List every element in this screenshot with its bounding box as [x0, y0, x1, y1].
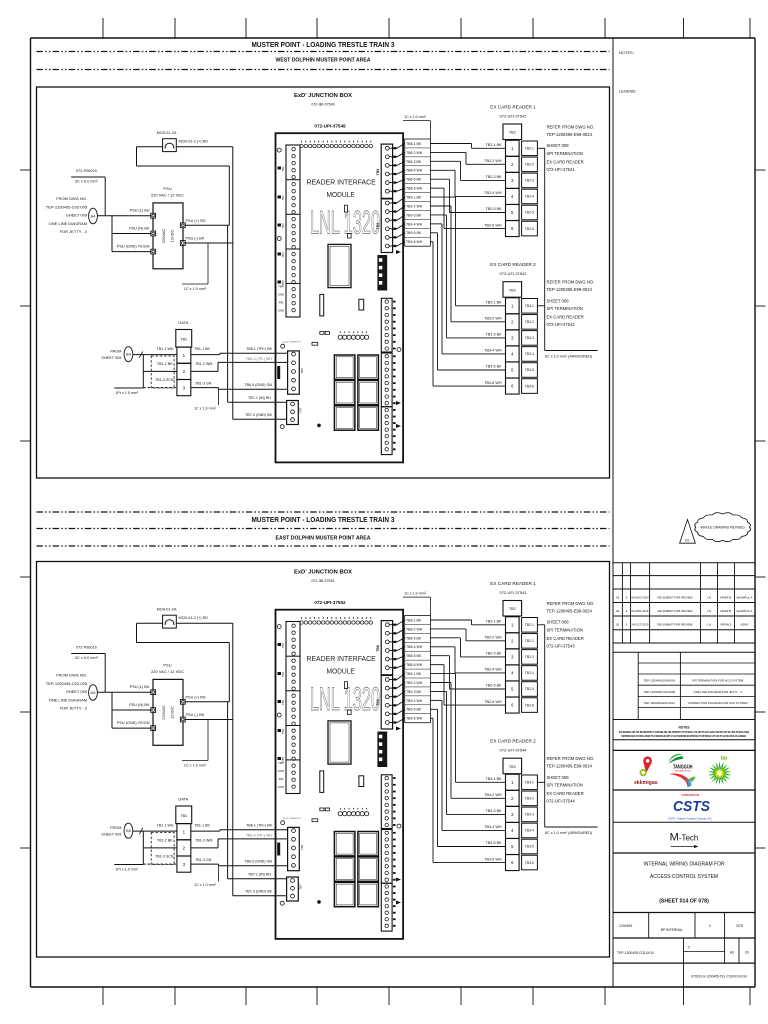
svg-text:TB8-2 WH: TB8-2 WH: [406, 151, 423, 155]
wire 0V distribution: [232, 147, 234, 420]
label box TB3-4 right: [522, 823, 538, 838]
TB1 terminal 2: [177, 363, 191, 379]
right terminal strip lower C: [381, 775, 392, 829]
wire TB1-3 screen (dashed): [143, 863, 177, 865]
svg-text:REFER FROM DWG NO.: REFER FROM DWG NO.: [547, 124, 595, 129]
label box TB3-5 right: [522, 839, 538, 854]
dash-dot separator line: [37, 545, 610, 547]
wire tick: [139, 828, 142, 834]
wire stub TB9-3 BK: [390, 219, 398, 221]
svg-text:LN: LN: [707, 609, 711, 613]
wire to TB2-4: [430, 646, 455, 648]
wire bus: [111, 216, 113, 252]
svg-text:072-P06016: 072-P06016: [76, 646, 97, 650]
TB2 terminal 3: [506, 649, 520, 665]
svg-text:TB1-1 WH: TB1-1 WH: [157, 347, 174, 351]
svg-text:TB9-2 WH: TB9-2 WH: [406, 681, 423, 685]
wire to TB3-4: [430, 699, 442, 701]
svg-text:RE-SUBMIT FOR REVIEW: RE-SUBMIT FOR REVIEW: [658, 596, 693, 600]
svg-text:LN: LN: [707, 596, 711, 600]
svg-text:TB3-4: TB3-4: [525, 829, 534, 833]
svg-text:MCB-01-2A: MCB-01-2A: [157, 608, 177, 612]
svg-text:REFER FROM DWG NO.: REFER FROM DWG NO.: [547, 601, 595, 606]
svg-text:TB3-5 BK: TB3-5 BK: [486, 841, 503, 845]
mid band dash-dot line: [37, 511, 610, 513]
svg-text:TB2-1: TB2-1: [525, 147, 534, 151]
svg-text:SHEET 009: SHEET 009: [66, 213, 88, 218]
left strip connector stubs: [278, 643, 282, 646]
DIP switch block: [377, 732, 387, 768]
svg-text:1C x 1.0 mm²: 1C x 1.0 mm²: [404, 591, 426, 595]
svg-text:REFER FROM DWG NO.: REFER FROM DWG NO.: [547, 280, 595, 285]
svg-text:TEP-1200495-C02-005: TEP-1200495-C02-005: [46, 204, 88, 209]
svg-text:01: 01: [616, 623, 620, 627]
DIP switch block: [377, 255, 387, 291]
PSU output terminal: [180, 241, 185, 246]
svg-text:DATA: DATA: [178, 797, 188, 802]
svg-text:B5: B5: [126, 828, 131, 833]
wire to TB2-6: [430, 664, 444, 666]
wire +12V to TB7-1: [228, 401, 287, 403]
svg-text:M-Tech: M-Tech: [670, 832, 699, 844]
wire to TB2-2: [430, 628, 466, 630]
TB2 terminal 5: [506, 204, 520, 220]
TB1 terminal 1: [177, 347, 191, 363]
cable leader TB3: [537, 305, 544, 307]
PSU input terminal: [151, 690, 156, 695]
svg-text:TB7: TB7: [299, 407, 303, 413]
wire stub TB8-4 WH: [390, 650, 398, 652]
TB3 terminal 2: [506, 314, 520, 330]
wire TB1-1 to TB6-1: [191, 830, 220, 832]
svg-text:CSTS: CSTS: [673, 798, 710, 815]
wire stub TB8-2 WH: [390, 632, 398, 634]
svg-text:TEP-1200495-E99-0024: TEP-1200495-E99-0024: [644, 679, 676, 683]
svg-text:THIS DRAWING AND THE INFORMATI: THIS DRAWING AND THE INFORMATION IT CONT…: [619, 730, 750, 734]
wire to TB3-6: [430, 717, 433, 719]
svg-text:REPRODUCED OR DISCLOSED TO OTH: REPRODUCED OR DISCLOSED TO OTHERS EXCEPT…: [622, 734, 747, 738]
PSU input terminal: [151, 708, 156, 713]
svg-text:TB2-5 BK: TB2-5 BK: [486, 684, 503, 688]
svg-text:GND: GND: [278, 293, 284, 297]
svg-text:IRFAN.S: IRFAN.S: [721, 623, 732, 627]
svg-text:bp: bp: [721, 756, 728, 762]
board mounting holes: [277, 148, 281, 152]
svg-text:EX CARD READER: EX CARD READER: [547, 636, 584, 641]
svg-text:TB3-4 WH: TB3-4 WH: [484, 349, 502, 353]
svg-text:TB7-1 (IN) RD: TB7-1 (IN) RD: [248, 872, 271, 876]
lower strip wire stubs: [393, 777, 396, 779]
label box TB2-3 right: [522, 650, 538, 665]
wire stub TB9-2 WH: [390, 211, 398, 213]
svg-text:ONE LINE DIAGRAM: ONE LINE DIAGRAM: [49, 221, 87, 226]
cable size label 1C x 1.0 mm2 under PSU: [207, 720, 209, 761]
PSU output terminal: [180, 223, 185, 228]
svg-text:TB8-5 BK: TB8-5 BK: [406, 178, 422, 182]
label box TB3-6 right: [522, 855, 538, 870]
wire stub TB8-6 WH: [390, 190, 398, 192]
svg-text:TB2: TB2: [509, 607, 516, 611]
svg-text:GND: GND: [278, 309, 284, 313]
svg-text:TB3: TB3: [281, 699, 285, 705]
svg-text:TB2: TB2: [509, 131, 516, 135]
label box TB2-1 right: [522, 618, 538, 633]
svg-text:PSU (+) RD: PSU (+) RD: [186, 219, 206, 223]
revision table: [613, 562, 755, 564]
label box TB3-2 right: [522, 791, 538, 806]
TB3 terminal 3: [506, 806, 520, 822]
wire TB1-3 to TB6-5: [191, 863, 219, 865]
svg-text:TB3-2 WH: TB3-2 WH: [484, 317, 502, 321]
svg-text:TB1-2 BK: TB1-2 BK: [157, 839, 173, 843]
wire tick: [139, 351, 142, 357]
svg-text:TB1-3 GN: TB1-3 GN: [195, 858, 212, 862]
svg-text:TB2-3 BK: TB2-3 BK: [486, 175, 503, 179]
board LED row: [338, 335, 342, 339]
svg-text:02: 02: [616, 609, 620, 613]
relay K3: [334, 380, 355, 404]
svg-text:TB9-5 BK: TB9-5 BK: [406, 708, 422, 712]
svg-text:GND: GND: [278, 769, 284, 773]
TB2 terminal 2: [506, 156, 520, 172]
IC U1 large square: [328, 244, 351, 287]
wire to TB2-4: [430, 169, 455, 171]
title block fields row 1: [648, 913, 650, 939]
ruler ticks bottom edge: [102, 987, 104, 1005]
svg-text:TB1: TB1: [180, 338, 187, 342]
wire +12V drop: [228, 643, 230, 702]
svg-text:TB2-2: TB2-2: [525, 639, 534, 643]
svg-text:RFL: RFL: [279, 301, 285, 305]
cable size 1Pr x 1.5 mm2: [114, 864, 143, 866]
wire PSU N: [112, 709, 151, 711]
label box TB3-6 right: [522, 379, 538, 394]
svg-text:TB3-3: TB3-3: [525, 336, 534, 340]
svg-text:TANGGUH: TANGGUH: [673, 764, 693, 770]
terminal block TB6 entry: [288, 351, 300, 394]
wire data in: [133, 354, 177, 356]
TB3 terminal 6: [506, 378, 520, 394]
label box TB2-5 right: [522, 205, 538, 220]
svg-text:TB3-3: TB3-3: [525, 813, 534, 817]
svg-text:TB2-2 WH: TB2-2 WH: [484, 636, 502, 640]
svg-text:1C x 1.0 mm²: 1C x 1.0 mm²: [184, 764, 207, 768]
svg-text:072-UFI-37543: 072-UFI-37543: [500, 590, 528, 595]
svg-text:TB2-5 BK: TB2-5 BK: [486, 207, 503, 211]
right terminal strip TB9: [381, 199, 392, 253]
svg-text:MODULE: MODULE: [327, 667, 355, 676]
svg-text:TB2-6: TB2-6: [525, 703, 534, 707]
right terminal strip TB8: [381, 621, 392, 675]
svg-text:PSU (N) BK: PSU (N) BK: [129, 226, 150, 230]
svg-text:TB6-5 (GND) GN: TB6-5 (GND) GN: [244, 383, 272, 387]
wire TB1-3 screen (dashed): [143, 387, 177, 389]
board test point dot: [318, 900, 321, 903]
svg-text:1200495: 1200495: [619, 924, 632, 928]
svg-text:220 VAC / 12 VDC: 220 VAC / 12 VDC: [151, 193, 184, 198]
svg-text:SHEET 009: SHEET 009: [101, 356, 121, 360]
svg-text:TB8-2 WH: TB8-2 WH: [406, 627, 423, 631]
svg-text:PSU: PSU: [163, 663, 171, 668]
svg-text:TEP-1200495-E99-0024: TEP-1200495-E99-0024: [547, 764, 593, 769]
svg-text:TB9-6 WH: TB9-6 WH: [406, 717, 423, 721]
svg-text:TB2-4: TB2-4: [525, 195, 534, 199]
svg-text:TB6: TB6: [300, 368, 304, 374]
cable size label 1C x 1.0 mm2 under PSU: [207, 243, 209, 284]
svg-text:072-P06015: 072-P06015: [76, 169, 97, 173]
svg-text:SHAWFUL A.: SHAWFUL A.: [736, 596, 753, 600]
terminal block TB7 entry: [287, 877, 299, 901]
svg-text:TEP-1200495-C02-005: TEP-1200495-C02-005: [46, 681, 88, 686]
wire: [137, 642, 230, 644]
svg-text:TB6-4 (TR-) WH: TB6-4 (TR-) WH: [246, 357, 273, 361]
wire stub TB8-5 BK: [390, 658, 398, 660]
leader line: [104, 177, 106, 216]
svg-text:072-UFI-37542: 072-UFI-37542: [547, 322, 576, 327]
terminal strip TB2: [503, 601, 522, 617]
label box TB3-3 right: [522, 807, 538, 822]
svg-text:ExD' JUNCTION BOX: ExD' JUNCTION BOX: [294, 570, 352, 576]
IC U1 large square: [328, 721, 351, 764]
svg-text:TB3-5: TB3-5: [525, 845, 534, 849]
svg-text:TB1-2 WM: TB1-2 WM: [195, 362, 212, 366]
svg-text:PSU (N) BK: PSU (N) BK: [129, 703, 150, 707]
svg-text:READER INTERFACE: READER INTERFACE: [307, 178, 376, 187]
board LED row: [338, 812, 342, 816]
svg-text:TB1-1 WH: TB1-1 WH: [157, 823, 174, 827]
svg-text:TB1-2 BK: TB1-2 BK: [157, 362, 173, 366]
relay K3: [334, 857, 355, 881]
wire to TB3-1: [430, 196, 455, 198]
wire to TB3-2: [430, 682, 451, 684]
TB3 terminal 1: [506, 298, 520, 314]
svg-text:ExD' JUNCTION BOX: ExD' JUNCTION BOX: [294, 93, 352, 99]
incoming data circle B5: [124, 823, 133, 838]
svg-text:EX CARD READER 2: EX CARD READER 2: [490, 262, 536, 267]
svg-text:6C x 1.0 mm² (ARMOURED): 6C x 1.0 mm² (ARMOURED): [545, 355, 592, 359]
svg-text:SHAWFUL A.: SHAWFUL A.: [736, 609, 753, 613]
svg-text:TB3-5: TB3-5: [525, 368, 534, 372]
svg-text:LNL 1320: LNL 1320: [310, 681, 380, 717]
ruler ticks top edge: [102, 18, 104, 38]
TB2 terminal 2: [506, 633, 520, 649]
incoming supply circle A5: [89, 685, 98, 701]
svg-text:TB1-1 BK: TB1-1 BK: [194, 823, 210, 827]
svg-text:EX CARD READER: EX CARD READER: [547, 791, 584, 796]
label box TB3-1 right: [522, 299, 538, 314]
svg-text:TB3-6: TB3-6: [525, 861, 534, 865]
svg-text:FROM DWG NO.: FROM DWG NO.: [56, 196, 87, 201]
svg-text:TB2-6 WH: TB2-6 WH: [484, 223, 502, 227]
terminal strip TB3: [503, 758, 522, 774]
wire data in: [133, 830, 177, 832]
svg-text:TEP-1200495-E99-0024: TEP-1200495-E99-0024: [547, 132, 593, 137]
svg-text:SHEET 008: SHEET 008: [547, 298, 570, 303]
ruler ticks right edge: [755, 169, 766, 171]
wire PSU L: [97, 691, 150, 693]
wire: [137, 165, 230, 167]
svg-text:NTS: NTS: [736, 924, 744, 928]
svg-text:EX CARD READER 2: EX CARD READER 2: [490, 739, 536, 744]
svg-text:TB6-1 (TR+) BK: TB6-1 (TR+) BK: [246, 824, 272, 828]
wire stub TB8-2 WH: [390, 156, 398, 158]
svg-text:TB8: TB8: [376, 645, 380, 652]
svg-text:TB2-1 BK: TB2-1 BK: [486, 620, 503, 624]
svg-text:TB2-6: TB2-6: [525, 227, 534, 231]
relay K6: [358, 882, 379, 906]
wire bus: [111, 692, 113, 728]
svg-text:072-UFI-37541: 072-UFI-37541: [547, 167, 576, 172]
wire PSU - output: [185, 242, 233, 244]
wire 0V distribution: [232, 623, 234, 896]
TB3 terminal 4: [506, 822, 520, 838]
svg-text:TB8-4 WH: TB8-4 WH: [406, 169, 423, 173]
relay K4: [358, 857, 379, 881]
svg-text:B4: B4: [126, 352, 132, 357]
svg-text:NOTES :: NOTES :: [619, 50, 635, 55]
svg-text:TB2: TB2: [281, 195, 285, 201]
svg-text:12VDC: 12VDC: [170, 229, 175, 242]
svg-text:TB7-3 (GND) BK: TB7-3 (GND) BK: [245, 413, 273, 417]
svg-text:BP INTERNAL: BP INTERNAL: [661, 928, 683, 932]
svg-text:ONE LINE DIAGRAM: ONE LINE DIAGRAM: [49, 697, 87, 702]
revision cloud WHOLE DRAWING REVISED: [695, 513, 751, 542]
svg-text:TB6-4 (TR-) WH: TB6-4 (TR-) WH: [246, 833, 273, 837]
svg-text:1Pr x 1.5 mm²: 1Pr x 1.5 mm²: [115, 867, 138, 871]
svg-text:1C x 1.0 mm²: 1C x 1.0 mm²: [184, 287, 207, 291]
svg-text:TB9-2 WH: TB9-2 WH: [406, 204, 423, 208]
svg-text:A3: A3: [730, 951, 734, 955]
label box TB2-2 right: [522, 157, 538, 172]
svg-text:TB8-3 BK: TB8-3 BK: [406, 636, 422, 640]
small caps: [320, 808, 324, 811]
svg-text:TB9-4 WH: TB9-4 WH: [406, 222, 423, 226]
svg-text:TB3-2 WH: TB3-2 WH: [484, 793, 502, 797]
right terminal strip TB9: [381, 675, 392, 729]
svg-text:TMP: TMP: [278, 761, 284, 765]
svg-text:A-1C TSX/BK/YW: A-1C TSX/BK/YW: [283, 817, 301, 820]
svg-text:TB2-1: TB2-1: [525, 623, 534, 627]
svg-text:CSTS - Saipem Tripatra Chiyoda: CSTS - Saipem Tripatra Chiyoda JGC: [668, 816, 712, 820]
TB3 terminal 1: [506, 774, 520, 790]
svg-text:TB9-1 BK: TB9-1 BK: [406, 195, 422, 199]
svg-text:PSU (GND) YE/GN: PSU (GND) YE/GN: [117, 245, 150, 249]
component small rect: [348, 233, 352, 238]
cable leader TB2: [537, 147, 544, 149]
svg-text:INTERNAL WIRING DIAGRAM FOR: INTERNAL WIRING DIAGRAM FOR: [643, 862, 725, 868]
svg-text:12VDC: 12VDC: [170, 706, 175, 719]
svg-text:TB8-6 WH: TB8-6 WH: [406, 187, 423, 191]
svg-text:3C x 6.0 mm²: 3C x 6.0 mm²: [75, 656, 99, 660]
title block fields row 2 drawing number: [683, 938, 685, 963]
svg-text:TB9: TB9: [376, 223, 380, 230]
wire to TB3-4: [430, 223, 442, 225]
svg-text:SHEET 008: SHEET 008: [547, 143, 570, 148]
svg-text:TEP-1200495-C03-0010: TEP-1200495-C03-0010: [617, 951, 654, 955]
PSU input terminal: [151, 213, 156, 218]
stub arrows: [396, 250, 401, 254]
lower strip wire stubs: [393, 301, 396, 303]
relay K5: [334, 406, 355, 430]
wire MCB feed: [137, 622, 163, 624]
svg-text:TB2-4 WH: TB2-4 WH: [484, 191, 502, 195]
label box TB2-6 right: [522, 698, 538, 713]
svg-text:SHEET 009: SHEET 009: [66, 689, 88, 694]
svg-text:670310-S-1200495-TEL-C03-0010-: 670310-S-1200495-TEL-C03-0010-014: [691, 975, 747, 979]
wire TB1-2: [143, 847, 177, 849]
wire stub TB9-1 BK: [390, 679, 398, 681]
wire stub TB8-3 BK: [390, 164, 398, 166]
wire PSU + output: [185, 701, 229, 703]
svg-text:03: 03: [745, 951, 749, 955]
svg-text:TB2-2: TB2-2: [525, 163, 534, 167]
dash-dot separator line: [37, 69, 610, 71]
label box TB2-4 right: [522, 666, 538, 681]
svg-text:TB3-2: TB3-2: [525, 320, 534, 324]
svg-text:03: 03: [685, 539, 689, 543]
armoured cable bus: [544, 625, 546, 827]
PSU input terminal: [151, 231, 156, 236]
wire stub TB8-3 BK: [390, 641, 398, 643]
title block row 3 file code: [683, 963, 685, 987]
svg-text:EX CARD READER 1: EX CARD READER 1: [490, 581, 536, 586]
cable size 1C x 1.0 mm2 below TB1: [218, 866, 220, 882]
armoured cable bus: [544, 148, 546, 350]
svg-text:TB2-2 WH: TB2-2 WH: [484, 159, 502, 163]
svg-text:FROM: FROM: [110, 826, 121, 830]
svg-text:TB2-3: TB2-3: [525, 655, 534, 659]
svg-text:GND: GND: [278, 785, 284, 789]
svg-text:RE-SUBMIT FOR REVIEW: RE-SUBMIT FOR REVIEW: [658, 623, 693, 627]
svg-text:TB1-3 SCN: TB1-3 SCN: [155, 378, 174, 382]
TB3 terminal 5: [506, 838, 520, 854]
label box TB3-5 right: [522, 363, 538, 378]
wire PSU L: [97, 215, 150, 217]
svg-text:EX CARD READER: EX CARD READER: [547, 315, 584, 320]
svg-text:TB2-4 WH: TB2-4 WH: [484, 668, 502, 672]
capacitor C1: [320, 294, 324, 316]
board left terminal strip: [286, 622, 300, 794]
svg-text:TB3-1 BK: TB3-1 BK: [486, 777, 503, 781]
svg-text:PSU (-) BK: PSU (-) BK: [186, 713, 205, 717]
svg-text:NOTES: NOTES: [679, 725, 690, 729]
logo TANGGUH: [669, 754, 683, 763]
svg-text:220VAC: 220VAC: [161, 705, 166, 720]
TB3 terminal 2: [506, 790, 520, 806]
leader line: [104, 654, 106, 693]
board mounting holes: [277, 625, 281, 629]
svg-text:TB2-5: TB2-5: [525, 687, 534, 691]
svg-text:TB3-6 WH: TB3-6 WH: [484, 857, 502, 861]
svg-text:TB9-3 BK: TB9-3 BK: [406, 690, 422, 694]
wire 0V to TB7-3: [233, 895, 287, 897]
wire stub TB8-4 WH: [390, 173, 398, 175]
board test point dot: [318, 424, 321, 427]
svg-text:TB3-1 BK: TB3-1 BK: [486, 301, 503, 305]
wire to TB2-5: [430, 178, 449, 180]
svg-text:TMP: TMP: [278, 285, 284, 289]
svg-text:072-UFI-37542: 072-UFI-37542: [500, 271, 528, 276]
board top pin row: [300, 144, 303, 147]
svg-text:WHOLE DRAWING REVISED: WHOLE DRAWING REVISED: [700, 526, 745, 530]
TB2 terminal 1: [506, 617, 520, 633]
wire +12V distribution: [227, 225, 229, 402]
svg-text:TB3-4 WH: TB3-4 WH: [484, 825, 502, 829]
svg-text:TB7-3 (GND) BK: TB7-3 (GND) BK: [245, 890, 273, 894]
wire PSU - output: [185, 719, 233, 721]
label box TB3-3 right: [522, 331, 538, 346]
wire to TB2-6: [430, 187, 444, 189]
